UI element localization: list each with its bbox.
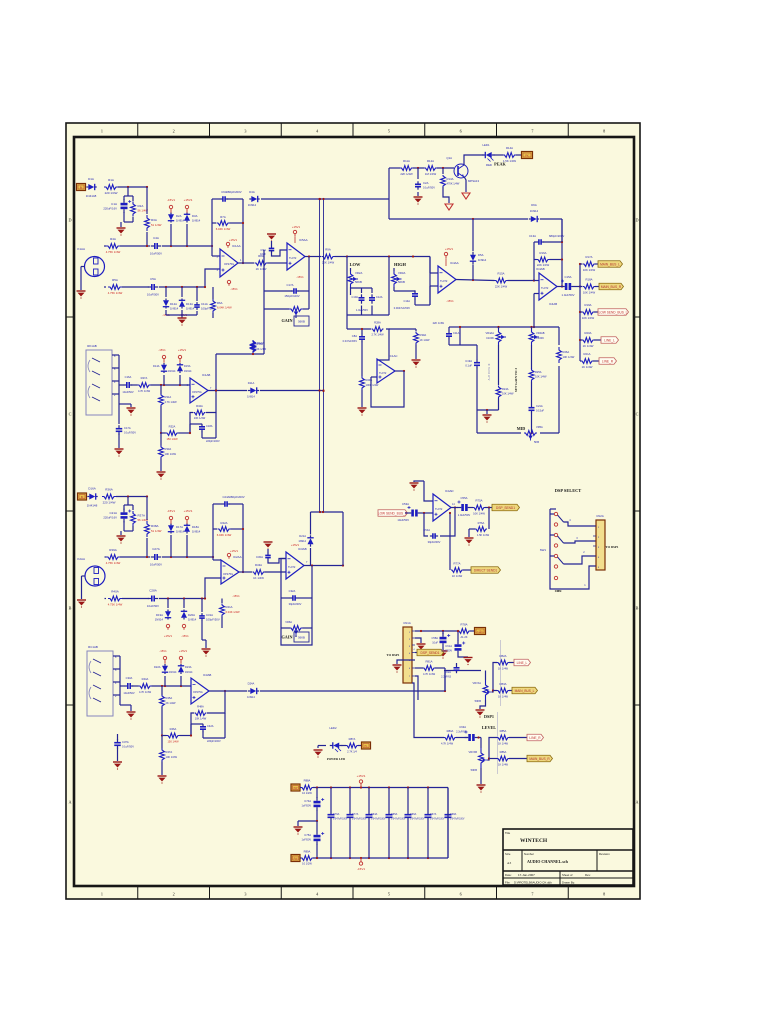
wire R15A to IC4AB xyxy=(508,280,535,282)
svg-text:10K 1/4W: 10K 1/4W xyxy=(194,416,206,420)
svg-text:IC4AB: IC4AB xyxy=(536,267,545,271)
svg-text:0.0047uF/63V: 0.0047uF/63V xyxy=(394,306,411,310)
svg-text:1K 1/4W: 1K 1/4W xyxy=(498,763,508,767)
ground R76A xyxy=(465,537,474,539)
svg-text:39pF/200V: 39pF/200V xyxy=(428,540,441,544)
net label MAIN_BUS_R xyxy=(595,286,599,288)
svg-text:LOW SEND_BUS_R: LOW SEND_BUS_R xyxy=(378,511,408,515)
wire IC2AA out xyxy=(239,571,252,573)
wire C4A to IC1AA xyxy=(162,245,212,247)
svg-text:10K 1/4W: 10K 1/4W xyxy=(583,291,596,295)
svg-text:2K 1/4W: 2K 1/4W xyxy=(166,701,176,705)
wire ch2 C21 branch xyxy=(127,497,129,506)
svg-text:R1A: R1A xyxy=(108,178,114,182)
resistor R15A xyxy=(495,278,508,283)
svg-text:D19A: D19A xyxy=(156,613,163,617)
wire mid bottom xyxy=(477,432,521,434)
resistor R35A vert xyxy=(251,341,256,353)
svg-text:IN: IN xyxy=(80,185,83,189)
op-amp IC4AD xyxy=(433,494,451,521)
svg-text:LINE_R: LINE_R xyxy=(529,736,541,740)
svg-text:0.1uF: 0.1uF xyxy=(465,364,472,368)
svg-text:VR2A: VR2A xyxy=(355,271,362,275)
svg-text:+15V1: +15V1 xyxy=(184,198,193,202)
svg-text:C12A: C12A xyxy=(376,295,383,299)
svg-text:R84A: R84A xyxy=(447,729,454,733)
zener D13A xyxy=(181,299,183,301)
svg-text:R20A: R20A xyxy=(585,331,592,335)
svg-text:WINTECH: WINTECH xyxy=(520,838,548,844)
svg-text:LINE_R: LINE_R xyxy=(602,359,614,363)
wire VR7AA bottom gnd xyxy=(480,700,486,709)
wire C21A to mid wire xyxy=(531,413,533,434)
wire VR4AB down xyxy=(531,345,533,369)
svg-text:R26A: R26A xyxy=(563,350,570,354)
svg-text:-15V1: -15V1 xyxy=(230,287,238,291)
capacitor C16A xyxy=(124,384,127,386)
svg-text:GAIN: GAIN xyxy=(282,635,293,640)
svg-text:IC5AA: IC5AA xyxy=(299,238,308,242)
svg-text:D14A: D14A xyxy=(153,364,160,368)
svg-text:R32A: R32A xyxy=(169,425,176,429)
svg-text:VR6A: VR6A xyxy=(285,620,292,624)
svg-text:DSP_SEND1: DSP_SEND1 xyxy=(421,651,440,655)
wire zener stems top xyxy=(170,224,172,246)
resistor R9A xyxy=(322,254,335,259)
capacitor C6A xyxy=(220,198,223,200)
capacitor C30A xyxy=(267,553,269,556)
diode D6A xyxy=(529,218,531,220)
svg-text:PEAK: PEAK xyxy=(494,162,506,167)
resistor R6A vert xyxy=(211,299,216,313)
schematic sheet xyxy=(66,123,640,899)
wire C8A down xyxy=(361,342,363,377)
svg-text:1uF/50V: 1uF/50V xyxy=(302,805,312,808)
wire IC4AB out xyxy=(557,286,561,288)
wire C5A to IC1AA plus xyxy=(159,286,205,288)
svg-text:1uF/50V: 1uF/50V xyxy=(302,839,312,842)
svg-text:17-Jan-2007: 17-Jan-2007 xyxy=(518,873,535,877)
resistor R33A vert xyxy=(159,446,164,459)
capacitor C74A xyxy=(314,801,321,804)
svg-text:LOW: LOW xyxy=(350,262,361,267)
connector peak out xyxy=(516,154,521,156)
diode D1A xyxy=(86,186,88,188)
svg-text:1N914: 1N914 xyxy=(186,307,195,311)
svg-text:R36A: R36A xyxy=(105,488,113,492)
connector +15V box b xyxy=(475,628,486,635)
svg-text:56KB: 56KB xyxy=(398,280,405,284)
svg-text:IC1AA: IC1AA xyxy=(232,244,241,248)
svg-text:0.15uF: 0.15uF xyxy=(536,409,544,413)
svg-text:C: C xyxy=(636,412,639,417)
value box 56KB ch2 xyxy=(294,632,309,642)
svg-text:R30A: R30A xyxy=(420,333,427,337)
svg-text:MPSA13: MPSA13 xyxy=(468,179,479,183)
wire ch1b zener stems xyxy=(163,375,165,385)
capacitor C54A xyxy=(430,535,433,537)
svg-text:LEVEL: LEVEL xyxy=(482,725,496,730)
svg-text:CN2A: CN2A xyxy=(596,514,604,518)
svg-text:C67A: C67A xyxy=(430,813,437,816)
svg-text:0.047uF/100V: 0.047uF/100V xyxy=(371,819,386,821)
svg-text:R3A: R3A xyxy=(151,218,157,222)
svg-text:1N914: 1N914 xyxy=(176,530,185,534)
svg-text:10uF: 10uF xyxy=(432,642,438,645)
wire D24A out run xyxy=(260,690,445,692)
power port +15V1 relay2 xyxy=(179,656,182,659)
resistor R86A xyxy=(497,756,509,761)
wire relay gnd branch xyxy=(118,394,120,404)
svg-text:10K 1/4W: 10K 1/4W xyxy=(535,375,547,379)
capacitor C2A vert xyxy=(417,168,419,179)
svg-text:C27A: C27A xyxy=(152,547,160,551)
svg-text:IC3AB: IC3AB xyxy=(203,673,211,677)
svg-text:1N914: 1N914 xyxy=(184,370,192,373)
svg-text:1N914: 1N914 xyxy=(192,530,201,534)
svg-text:22K 1/4W: 22K 1/4W xyxy=(400,172,413,176)
op-amp IC4AA xyxy=(438,266,456,293)
potentiometer VR4AB xyxy=(529,329,534,345)
wire ch2 input node xyxy=(116,496,147,498)
ground XLR xyxy=(77,290,86,292)
wire Q1A collector xyxy=(464,155,484,166)
ground zener pair xyxy=(178,317,187,319)
svg-text:MID: MID xyxy=(517,426,526,431)
resistor R81A xyxy=(415,667,423,669)
svg-text:6.04K 1/4W: 6.04K 1/4W xyxy=(216,227,231,231)
svg-text:51 1/4W: 51 1/4W xyxy=(151,223,162,227)
svg-text:+15V1: +15V1 xyxy=(184,509,193,513)
svg-text:1K 1/4W: 1K 1/4W xyxy=(583,344,594,348)
op-amp IC1AA xyxy=(220,249,238,277)
net label LINE_L b xyxy=(509,662,514,664)
capacitor C11B xyxy=(448,327,450,331)
svg-text:A+B IN PH Φ: A+B IN PH Φ xyxy=(487,363,491,380)
svg-text:0.047uF/100V: 0.047uF/100V xyxy=(391,819,406,821)
capacitor C4A xyxy=(151,245,155,247)
wire GAIN loop left xyxy=(263,250,265,354)
resistor R83A xyxy=(497,688,509,693)
svg-text:R12A: R12A xyxy=(427,159,434,163)
svg-text:GAIN: GAIN xyxy=(282,318,293,323)
wire SW1 out 1 xyxy=(564,522,597,526)
svg-text:4.7K 1/4W: 4.7K 1/4W xyxy=(165,400,178,404)
wire CN1A bottom to level xyxy=(412,683,444,738)
svg-text:4.7K 1/4W: 4.7K 1/4W xyxy=(441,742,454,746)
wire IC1AB feedback xyxy=(190,413,193,434)
capacitor C67A xyxy=(427,788,429,815)
svg-text:C42A: C42A xyxy=(207,724,214,728)
resistor R4A xyxy=(106,244,120,249)
wire VR7AA wiper net xyxy=(492,663,497,693)
wire C28A to IC2AA plus xyxy=(159,598,205,600)
svg-text:5: 5 xyxy=(388,892,390,897)
svg-text:C14A: C14A xyxy=(404,299,411,303)
svg-text:RC1AB: RC1AB xyxy=(88,645,98,649)
wire D11A to bus xyxy=(260,390,324,392)
resistor R40A xyxy=(108,596,122,601)
svg-text:10K 1/4W: 10K 1/4W xyxy=(502,392,514,396)
resistor R20A xyxy=(580,339,582,341)
resistor R82A xyxy=(497,660,509,665)
svg-text:C37A: C37A xyxy=(122,740,129,744)
svg-text:IC4AD: IC4AD xyxy=(445,489,454,493)
svg-text:R4A: R4A xyxy=(110,237,116,241)
svg-text:10 1/2W: 10 1/2W xyxy=(302,791,312,795)
wire ch2 to C27A xyxy=(120,556,150,558)
svg-text:3: 3 xyxy=(244,892,246,897)
svg-text:4.7K 1/4W: 4.7K 1/4W xyxy=(423,672,436,676)
wire C11B top xyxy=(449,326,460,328)
wire CMN to CN2A xyxy=(563,566,596,589)
svg-text:VR5A: VR5A xyxy=(536,425,543,429)
capacitor C11A xyxy=(196,302,198,305)
ground power led xyxy=(314,749,323,751)
wire rail y219 xyxy=(389,218,528,220)
svg-text:C54A: C54A xyxy=(423,528,430,532)
svg-text:Sheet of: Sheet of xyxy=(562,873,573,877)
potentiometer VR5A MID xyxy=(524,431,537,436)
wire relay cap branch xyxy=(118,404,120,424)
wire IC1AB out xyxy=(208,390,247,392)
zener D12A xyxy=(165,299,167,301)
svg-text:C62A: C62A xyxy=(445,670,452,674)
zener D23A xyxy=(180,664,182,666)
net label LINE_R xyxy=(593,360,599,362)
svg-text:C17A: C17A xyxy=(124,426,131,430)
wire R84A to C63A xyxy=(456,737,468,739)
svg-text:IC1AC: IC1AC xyxy=(389,354,398,358)
connector power led xyxy=(358,745,361,747)
svg-text:A: A xyxy=(635,800,638,805)
svg-text:39pF/200V: 39pF/200V xyxy=(289,602,302,606)
wire R76A to gnd xyxy=(469,528,475,530)
resistor R77A xyxy=(451,568,463,573)
diode D5A xyxy=(472,252,474,255)
svg-text:4.75K 1/4W: 4.75K 1/4W xyxy=(106,250,121,254)
ground mid net xyxy=(483,414,492,416)
op-amp IC5AA xyxy=(287,243,305,270)
wire mid left col xyxy=(476,410,478,433)
wire C74A col xyxy=(316,788,318,799)
svg-text:R13A: R13A xyxy=(447,177,454,181)
wire IC2AA feedback left xyxy=(212,504,214,557)
resistor R5A xyxy=(108,285,122,290)
svg-text:Q1A: Q1A xyxy=(446,156,452,160)
connector -15V feed xyxy=(300,857,301,859)
svg-text:R24A: R24A xyxy=(502,387,509,391)
svg-text:C18A: C18A xyxy=(206,424,213,428)
svg-text:D1A: D1A xyxy=(88,177,94,181)
wire C27A to IC2AA xyxy=(162,556,213,558)
svg-text:IC2AA: IC2AA xyxy=(233,555,242,559)
svg-text:Size: Size xyxy=(505,852,511,856)
resistor R42A fb xyxy=(218,527,231,532)
wire R81A to out bus xyxy=(435,667,445,669)
wire IC2AA feedback right xyxy=(229,503,243,505)
svg-text:TL072: TL072 xyxy=(440,279,448,283)
connector +15V feed xyxy=(291,784,300,791)
svg-text:VR7AA: VR7AA xyxy=(472,681,481,685)
svg-text:R2A: R2A xyxy=(138,204,144,208)
capacitor C63A xyxy=(468,734,471,741)
svg-text:2.2uF/63: 2.2uF/63 xyxy=(456,731,466,734)
connector J1A xyxy=(77,184,86,191)
wire vertical bus x320 xyxy=(319,199,321,512)
connector CN1A xyxy=(403,627,412,683)
svg-text:0.047uF/100V: 0.047uF/100V xyxy=(333,819,348,821)
resistor R78A xyxy=(458,629,470,634)
svg-text:1N914: 1N914 xyxy=(247,395,255,399)
capacitor C61A xyxy=(455,644,462,647)
wire relay2 pins xyxy=(113,655,120,657)
svg-text:1N914: 1N914 xyxy=(247,695,255,699)
capacitor C62A xyxy=(456,663,458,665)
wire IC4AA out xyxy=(456,280,495,281)
svg-text:-15V1: -15V1 xyxy=(158,348,166,352)
svg-text:R18A: R18A xyxy=(586,278,593,282)
capacitor C18A xyxy=(190,423,202,425)
wire vertical bus x323 xyxy=(323,199,325,512)
resistor R8A xyxy=(255,261,268,266)
wire C19A down xyxy=(476,368,478,411)
wire R12A to Q1A xyxy=(437,167,454,169)
svg-text:2.7K 1/4W: 2.7K 1/4W xyxy=(371,333,384,337)
wire R3A branch xyxy=(146,187,148,214)
ground R29A xyxy=(358,407,367,409)
svg-text:1K 1/4W: 1K 1/4W xyxy=(498,742,508,746)
capacitor C24A xyxy=(222,503,225,505)
svg-text:D20A: D20A xyxy=(188,613,195,617)
svg-text:R28A: R28A xyxy=(374,321,381,325)
resistor R47A vert xyxy=(160,749,165,762)
svg-text:AUDIO CHANNEL.sch: AUDIO CHANNEL.sch xyxy=(527,859,569,864)
svg-text:10K 1/4W: 10K 1/4W xyxy=(582,316,595,320)
resistor R34A fb xyxy=(194,410,206,415)
svg-text:C19A: C19A xyxy=(465,359,472,363)
resistor R19A xyxy=(580,311,582,313)
svg-text:10uF/50V: 10uF/50V xyxy=(147,293,159,297)
analog ground Q1A xyxy=(462,193,470,199)
svg-text:D13A: D13A xyxy=(186,302,193,306)
svg-text:VR3A: VR3A xyxy=(398,271,405,275)
svg-text:50KB: 50KB xyxy=(471,768,478,772)
zener D15A xyxy=(179,363,181,365)
wire R75A to label xyxy=(485,507,492,509)
svg-text:R17A: R17A xyxy=(586,255,593,259)
zener D20A xyxy=(183,610,185,612)
resistor R21A xyxy=(580,360,581,362)
wire R6A top rail xyxy=(216,353,264,355)
svg-text:C58A: C58A xyxy=(432,636,439,640)
resistor R10A vert xyxy=(251,340,256,352)
net label LINE_L xyxy=(594,339,601,341)
svg-text:K1AA: K1AA xyxy=(77,247,85,251)
net label MAIN_BUS_L xyxy=(595,263,598,265)
wire GAIN loop right xyxy=(308,257,310,310)
svg-text:VR7AB: VR7AB xyxy=(468,750,477,754)
svg-text:R21A: R21A xyxy=(584,352,591,356)
svg-text:1N914: 1N914 xyxy=(298,539,306,543)
svg-text:1.0uF/50V: 1.0uF/50V xyxy=(356,308,368,312)
svg-text:Number: Number xyxy=(524,852,534,856)
svg-text:R19A: R19A xyxy=(585,303,592,307)
resistor R84A xyxy=(444,735,456,740)
wire LOW caps xyxy=(361,288,363,293)
resistor R31A vert xyxy=(159,394,164,406)
svg-text:6.04K 1/4W: 6.04K 1/4W xyxy=(217,306,232,310)
svg-text:2.2uF/63: 2.2uF/63 xyxy=(441,676,451,679)
zener D3A xyxy=(186,213,188,215)
svg-text:0.047uF/100V: 0.047uF/100V xyxy=(352,819,367,821)
resistor R46B xyxy=(167,733,180,738)
wire C74A mid xyxy=(316,811,318,822)
wire R45A to R46B xyxy=(161,707,163,736)
svg-text:C66A: C66A xyxy=(410,813,417,816)
svg-text:R39A: R39A xyxy=(109,548,117,552)
resistor R16A xyxy=(537,257,550,262)
relay RK1AB xyxy=(86,350,112,415)
ground C37A xyxy=(113,761,122,763)
op-amp IC2AA xyxy=(221,560,239,584)
wire R9A to LOW box xyxy=(335,256,348,258)
svg-text:-15V1: -15V1 xyxy=(167,198,175,202)
resistor R24A vert xyxy=(496,386,501,399)
svg-text:R85A: R85A xyxy=(500,729,507,733)
XLR connector K1AA xyxy=(85,257,105,277)
svg-text:A1.2K: A1.2K xyxy=(460,635,467,639)
wire LED2 to R87A xyxy=(342,745,347,747)
capacitor C21B xyxy=(121,512,128,515)
capacitor C1A xyxy=(121,203,128,206)
svg-text:7: 7 xyxy=(531,129,533,134)
wire C58A gnd xyxy=(442,647,444,650)
svg-text:10K 1/4W: 10K 1/4W xyxy=(195,717,207,721)
svg-text:10uF: 10uF xyxy=(260,252,266,256)
resistor R48A fb xyxy=(195,711,207,716)
connector J2A xyxy=(78,493,87,500)
svg-text:+15V1: +15V1 xyxy=(229,238,238,242)
wire y329 rail xyxy=(347,328,371,330)
wire IC3AB out xyxy=(304,565,343,567)
wire R78A left xyxy=(452,630,458,632)
wire to IC3AB xyxy=(265,571,287,573)
wire top rail y168 xyxy=(389,167,400,169)
svg-text:10uF/50V: 10uF/50V xyxy=(123,691,135,695)
svg-text:TL072: TL072 xyxy=(288,565,296,569)
wire C61A gnd xyxy=(458,655,468,658)
svg-text:IC3AB: IC3AB xyxy=(298,547,307,551)
capacitor C10A xyxy=(361,294,363,298)
switch SW1 contacts xyxy=(554,512,557,515)
svg-text:R78A: R78A xyxy=(461,623,468,627)
wire LOW box bottom xyxy=(347,314,389,316)
svg-text:1N914: 1N914 xyxy=(169,671,177,674)
resistor R85A xyxy=(497,735,509,740)
connector CN2A xyxy=(596,520,605,570)
led LED1 xyxy=(482,152,494,162)
svg-text:C65A: C65A xyxy=(391,813,398,816)
relay RC1AB xyxy=(87,651,113,716)
svg-text:D: D xyxy=(635,218,638,223)
svg-text:R46A: R46A xyxy=(170,727,177,731)
svg-text:R31A: R31A xyxy=(165,395,172,399)
wire XLR shield xyxy=(80,267,82,291)
potentiometer VR1A GAIN xyxy=(289,307,303,312)
svg-text:R11A: R11A xyxy=(403,159,410,163)
wire top bus xyxy=(313,787,448,789)
